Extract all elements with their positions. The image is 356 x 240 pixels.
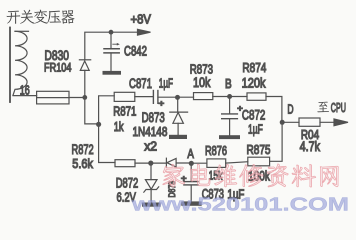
resistor R874	[247, 93, 266, 100]
wire R874 to node D	[266, 97, 282, 123]
svg-text:C871: C871	[129, 76, 152, 91]
svg-text:x2: x2	[144, 139, 157, 153]
node junction (C871/R873/D873)	[175, 95, 180, 100]
wire pin16 to series resistor	[13, 95, 37, 97]
wire node B down to C872	[229, 97, 231, 114]
resistor (unmarked) in series with pin 16	[37, 91, 69, 104]
node junction (feedback tap)	[96, 122, 101, 127]
svg-text:120k: 120k	[242, 76, 266, 91]
svg-text:C842: C842	[124, 44, 147, 59]
svg-text:R872: R872	[72, 142, 94, 157]
svg-text:+: +	[159, 99, 165, 108]
junction node on +8V rail	[109, 30, 114, 35]
wire R873 to R874 through node B	[213, 96, 247, 98]
capacitor C872	[222, 114, 238, 135]
arrow to CPU	[334, 119, 348, 126]
resistor R875	[248, 157, 270, 166]
ground under D873	[169, 135, 187, 139]
svg-text:C872: C872	[242, 107, 266, 123]
node junction (R872/D872/D873b)	[148, 161, 153, 166]
zener diode D872	[144, 180, 159, 193]
svg-text:R875: R875	[247, 142, 271, 157]
label 至CPU	[317, 102, 329, 113]
svg-text:B: B	[225, 76, 232, 91]
svg-text:+8V: +8V	[131, 11, 152, 26]
svg-text:R871: R871	[113, 105, 136, 119]
wire resistor to node	[69, 97, 85, 99]
wire node D down to R875	[270, 122, 283, 161]
node junction (D830 / pin16 resistor)	[82, 95, 87, 100]
svg-text:www.520101.COM: www.520101.COM	[131, 193, 349, 213]
wire D830 cathode up to +8V rail	[85, 32, 139, 60]
capacitor C842	[104, 32, 120, 71]
resistor R872	[115, 160, 135, 167]
svg-text:R876: R876	[205, 143, 227, 158]
resistor R04	[299, 118, 320, 126]
svg-text:CPU: CPU	[331, 101, 346, 115]
wire node A to R876	[191, 162, 207, 164]
svg-text:4.7k: 4.7k	[300, 139, 321, 154]
wire junction down to D873	[177, 97, 179, 112]
diode D873 (a)	[170, 112, 188, 123]
node A	[189, 161, 194, 166]
svg-text:1µF: 1µF	[159, 76, 173, 91]
wire R872 to node	[135, 162, 151, 164]
svg-text:FR104: FR104	[44, 60, 72, 74]
svg-text:5.6k: 5.6k	[72, 156, 93, 171]
watermark 家电维修资料网 (red)	[163, 164, 338, 187]
power +8V arrow	[138, 29, 151, 35]
resistor R876	[207, 159, 226, 168]
wire D873b anode to node A	[176, 162, 191, 164]
ground under D872	[142, 203, 161, 207]
ground under C873	[181, 201, 201, 205]
wire node A down to C873	[190, 163, 192, 181]
svg-text:D: D	[287, 101, 293, 116]
ground under C872	[219, 135, 240, 139]
node B	[227, 94, 232, 99]
wire node down to D872	[150, 163, 152, 180]
capacitor C873	[184, 182, 198, 202]
svg-text:10k: 10k	[193, 75, 211, 90]
svg-text:A: A	[187, 146, 194, 161]
node D	[280, 120, 285, 125]
svg-text:1k: 1k	[114, 120, 124, 134]
wire R04 to CPU arrow	[320, 121, 336, 123]
diode D873 (b)	[166, 158, 176, 167]
wire node down to bottom rail	[99, 124, 115, 162]
svg-text:R874: R874	[242, 60, 266, 75]
wire D873 to ground	[177, 123, 179, 135]
wire R876 to R875	[226, 162, 248, 163]
ground under C842	[103, 71, 122, 75]
svg-text:1µF: 1µF	[248, 121, 263, 136]
wire C871 to R873	[158, 96, 194, 98]
svg-text:1N4148: 1N4148	[133, 125, 168, 139]
svg-text:D873: D873	[142, 110, 165, 125]
wire node to D873b cathode	[151, 162, 167, 164]
title 开关变压器	[7, 10, 75, 24]
wire node D to R04	[282, 121, 299, 123]
wire D872 to ground	[150, 190, 152, 203]
wire R871 to C871	[135, 96, 153, 98]
wire D830 anode to junction	[84, 70, 86, 97]
resistor R873	[194, 93, 213, 100]
transformer T830 (switching transformer) winding	[10, 28, 29, 103]
wire jog down from node	[85, 97, 99, 124]
svg-text:D872: D872	[116, 175, 139, 191]
resistor R871	[114, 92, 135, 101]
wire node up to R871	[99, 96, 115, 125]
capacitor C871	[153, 91, 158, 104]
diode D830	[79, 60, 90, 71]
